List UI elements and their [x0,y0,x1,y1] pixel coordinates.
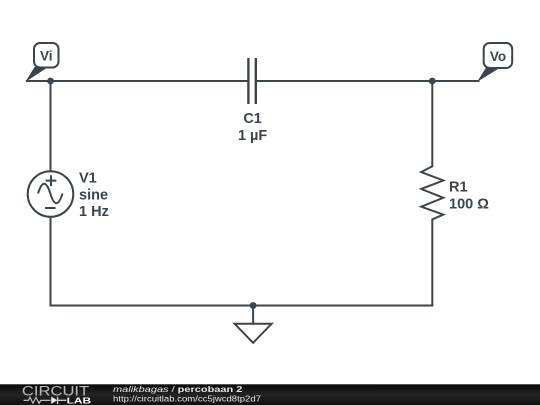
svg-text:sine: sine [79,187,108,203]
V1 plus sign [46,175,57,186]
node junction dot at ground net [250,302,257,309]
node junction dot at Vo net [429,78,436,85]
wire left branch: node Vi down to V1 top terminal [50,81,52,171]
node flag Vi tail [27,68,47,81]
wire bottom net [51,305,433,307]
CircuitLab logo schematic: wire + resistor zigzag [24,397,51,403]
resistor R1 zigzag [421,166,443,219]
wire ground stub [252,306,254,324]
svg-text:1 µF: 1 µF [238,128,267,144]
svg-text:C1: C1 [243,111,262,127]
node flag Vi box [34,43,59,68]
node flag Vo tail [479,68,500,81]
svg-text:Vo: Vo [490,49,506,64]
wire left branch: V1 bottom terminal down to bottom net [50,217,52,306]
V1 sine waveform [38,184,63,204]
ground symbol [235,324,272,343]
svg-text:R1: R1 [449,179,468,195]
wire top net Vi to C1 left plate [27,80,247,82]
node flag Vo box [484,43,513,68]
svg-text:http://circuitlab.com/cc5jwcd8: http://circuitlab.com/cc5jwcd8tp2d7 [113,394,261,404]
V1 minus sign [45,207,56,209]
CircuitLab logo schematic: diode [51,397,57,404]
svg-text:Vi: Vi [40,49,53,64]
capacitor C1 plates [248,58,255,104]
svg-text:LAB: LAB [67,396,92,405]
svg-text:malikbagas / percobaan 2: malikbagas / percobaan 2 [113,384,243,394]
svg-text:100 Ω: 100 Ω [449,197,489,213]
wire right branch: R1 bottom terminal down to bottom net [431,219,433,305]
wire top net C1 right plate to Vo [257,80,479,82]
svg-text:V1: V1 [79,171,97,187]
voltage source V1 circle [28,171,74,217]
svg-text:1 Hz: 1 Hz [79,204,109,220]
wire right branch: node Vo down to R1 top terminal [431,81,433,166]
node junction dot at Vi net [47,78,54,85]
